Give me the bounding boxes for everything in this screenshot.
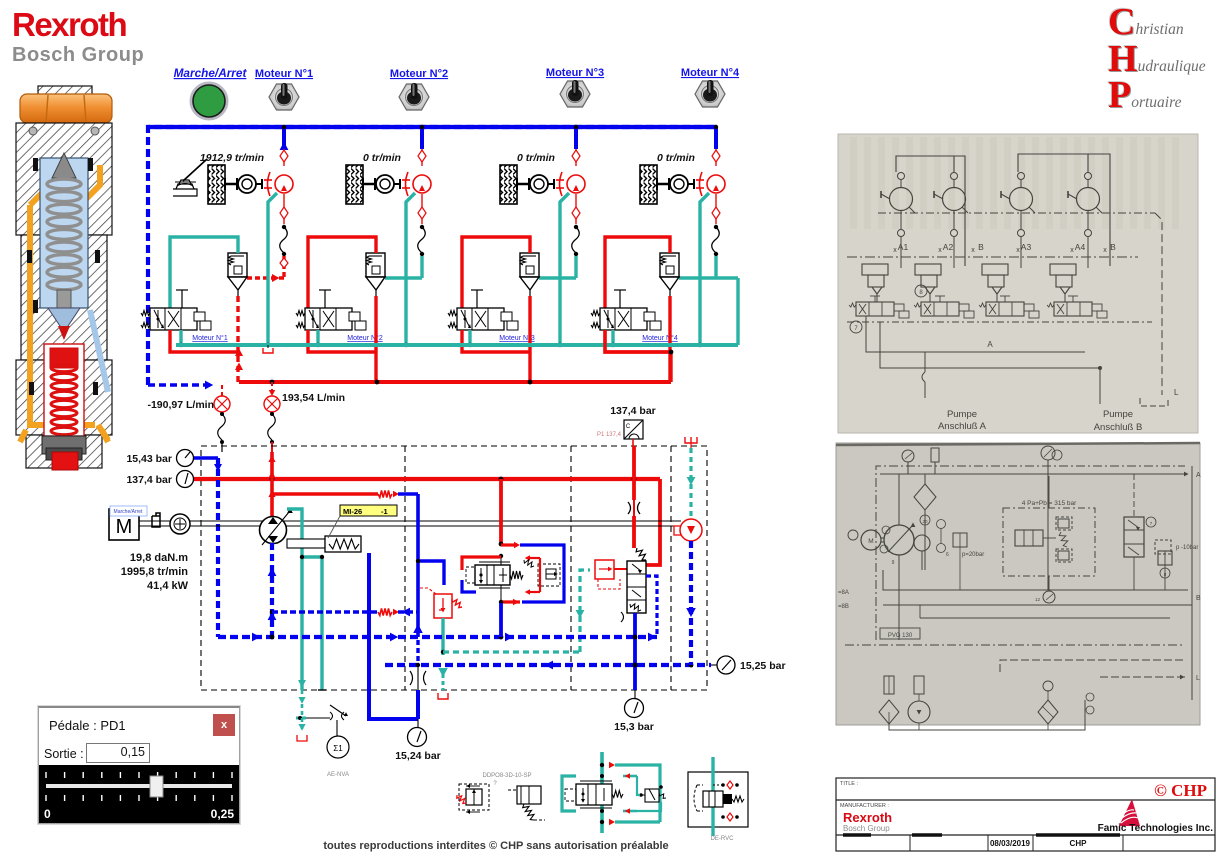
branch to relief valve (blue) — [418, 561, 444, 585]
flow regulator valve body — [475, 565, 510, 585]
svg-text:1995,8 tr/min: 1995,8 tr/min — [121, 566, 189, 578]
svg-text:L: L — [1174, 388, 1179, 397]
svg-text:Anschluß B: Anschluß B — [1094, 422, 1143, 433]
svg-text:-190,97 L/min: -190,97 L/min — [147, 399, 214, 411]
gauge 15,25 bar — [711, 664, 717, 666]
pilot supply bus (blue, top) — [148, 127, 716, 385]
svg-text:137,4 bar: 137,4 bar — [126, 474, 172, 486]
svg-text:0,25: 0,25 — [211, 807, 235, 821]
coupling — [152, 513, 160, 527]
tank wire valve DV1 — [179, 330, 182, 345]
hose below FM1 — [220, 412, 224, 416]
svg-text:Moteur N°1: Moteur N°1 — [255, 68, 313, 80]
logo Rexroth — [12, 8, 144, 65]
svg-text:x: x — [971, 247, 975, 254]
push button Marche/Arret (green) — [191, 83, 227, 119]
dialog Pedale PD1 — [38, 706, 240, 824]
svg-text:08/03/2019: 08/03/2019 — [990, 839, 1031, 848]
check valve diamond above motor M3 — [575, 149, 577, 166]
tank return bus (teal) — [176, 343, 738, 347]
svg-text:toutes reproductions interdite: toutes reproductions interdites © CHP sa… — [323, 840, 668, 852]
svg-text:Moteur N°4: Moteur N°4 — [642, 334, 678, 342]
svg-text:A: A — [987, 340, 993, 349]
pilot orifice line y612 — [272, 610, 378, 613]
svg-text:x: x — [938, 247, 942, 254]
main pump P1 (variable displacement) — [270, 452, 274, 517]
servo actuator MI-26 cylinder — [287, 539, 325, 548]
svg-text:CHP: CHP — [1070, 839, 1088, 848]
wire from hose to counterbalance valve M3 — [574, 256, 577, 278]
svg-text:B: B — [1110, 242, 1116, 252]
proportional relief/unloading valve (tall) — [627, 561, 646, 613]
svg-text:P1 137,4: P1 137,4 — [597, 432, 622, 438]
pilot drain line left (blue dashed vertical) — [216, 458, 220, 637]
toggle switch Moteur N°1 — [269, 84, 299, 110]
wheel (tyre) motor M3 — [500, 165, 517, 204]
svg-text:15,43 bar: 15,43 bar — [126, 453, 172, 465]
svg-text:Moteur N°2: Moteur N°2 — [390, 68, 448, 80]
axle coupling motor M2 — [363, 183, 375, 186]
hydraulic motor M1 (circle) — [264, 179, 272, 181]
component label MI-26 — [340, 505, 397, 516]
svg-text:0: 0 — [44, 807, 51, 821]
flexible hose below motor M1 — [282, 225, 286, 229]
svg-text:0 tr/min: 0 tr/min — [517, 152, 555, 164]
drain wire valve DV1 to pressure bus — [170, 330, 238, 352]
svg-text:A1: A1 — [898, 242, 909, 252]
gearbox coupling circle motor M1 — [238, 175, 256, 193]
torque meter — [170, 514, 190, 534]
svg-text:M: M — [116, 516, 133, 538]
return line motor M4 to tank bus — [700, 193, 709, 345]
regulator right red pilots — [539, 558, 541, 592]
orifice symbol — [628, 502, 640, 514]
prop valve pilot (blue dashed) — [646, 576, 657, 634]
flow regulator assembly (teal, bottom) — [600, 752, 604, 833]
svg-text:A3: A3 — [1021, 242, 1032, 252]
svg-text:C: C — [626, 424, 631, 430]
system relief valve RV1 (red) — [434, 594, 452, 618]
tank pilot teal dashed to compensator — [443, 650, 580, 653]
svg-text:A2: A2 — [943, 242, 954, 252]
return line motor M1 to tank bus — [268, 193, 277, 345]
directional valve 4/3 DV1 — [150, 308, 197, 330]
svg-text:15,25 bar: 15,25 bar — [740, 660, 786, 672]
check valve diamond below motor M2 — [421, 194, 423, 224]
axle coupling motor M4 — [657, 183, 669, 186]
gauge 15,24 bar — [417, 719, 419, 728]
check valve diamond above motor M1 — [283, 149, 285, 166]
axle coupling motor M3 — [517, 183, 529, 186]
svg-text:Marche/Arret: Marche/Arret — [174, 66, 248, 80]
return to tank (blue thick, bottom left) — [369, 553, 418, 719]
wire from hose to counterbalance valve M4 — [714, 256, 717, 278]
cartridge valve cutaway illustration — [16, 86, 112, 470]
flow regulator spool centreline — [500, 556, 502, 602]
counterbalance valve CB3 — [520, 253, 539, 277]
flexible hose below motor M3 — [574, 225, 578, 229]
pump case drain (teal) — [287, 509, 302, 690]
tank symbol at motor 1 return — [263, 348, 273, 353]
svg-text:p=20bar: p=20bar — [962, 552, 984, 558]
svg-text:x: x — [1070, 247, 1074, 254]
toggle switch Moteur N°3 — [560, 81, 590, 107]
wire blue supply stub motor 3 — [574, 127, 578, 149]
wire from hose to counterbalance valve M1 — [282, 256, 285, 278]
svg-text:=8A: =8A — [838, 590, 849, 596]
svg-text:PVG 130: PVG 130 — [888, 633, 913, 639]
flexible hose below motor M2 — [420, 225, 424, 229]
load-sense line (red with orifice) — [272, 492, 378, 495]
wire teal right branch motor M4 — [716, 276, 738, 279]
power unit enclosure (dashed) — [201, 446, 707, 690]
check valve diamond above motor M4 — [715, 149, 717, 166]
svg-text:Rexroth: Rexroth — [843, 810, 892, 825]
svg-text:-1: -1 — [381, 507, 388, 516]
svg-text:DDPO8-3D-10-SP: DDPO8-3D-10-SP — [482, 773, 531, 779]
counterbalance valve CB2 — [366, 253, 385, 277]
prop valve outlet (blue) — [633, 613, 637, 690]
line to proportional valve (red) — [632, 516, 636, 548]
regulator pilot boxes (dashed) — [466, 567, 475, 583]
tank symbol below relief valve — [438, 693, 448, 699]
photo of pump schematic (Pumpe Anschluss A/B) — [838, 134, 1198, 433]
return line motor M3 to tank bus — [560, 193, 569, 345]
pump suction pilot (blue dashed, below pump) — [270, 543, 274, 637]
valve DE-RVC (boxed) — [688, 772, 748, 827]
drain wire valve DV2 to pressure bus — [308, 330, 376, 352]
svg-text:0 tr/min: 0 tr/min — [657, 152, 695, 164]
hose below FM2 — [270, 412, 274, 416]
svg-text:MI-26: MI-26 — [343, 507, 362, 516]
case drain to fan motor (teal dashed) — [689, 448, 692, 519]
svg-text:Pumpe: Pumpe — [1103, 409, 1133, 420]
svg-text:41,4 kW: 41,4 kW — [147, 580, 189, 592]
wire loop valve-to-counterbalance M1 — [170, 237, 238, 308]
toggle switch Moteur N°4 — [695, 81, 725, 107]
svg-text:12: 12 — [1035, 597, 1041, 602]
svg-text:x: x — [893, 247, 897, 254]
svg-text:137,4 bar: 137,4 bar — [610, 405, 656, 417]
check valve diamond above motor M2 — [421, 149, 423, 166]
svg-text:Moteur N°3: Moteur N°3 — [546, 67, 604, 79]
logo CHP Christian Hydraulique Portuaire — [1108, 0, 1223, 1]
pressure line 137 bar (red horizontal) — [194, 477, 660, 481]
svg-text:M: M — [868, 538, 873, 545]
svg-text:Famic Technologies Inc.: Famic Technologies Inc. — [1098, 823, 1214, 834]
check valve diamond below motor M4 — [715, 194, 717, 224]
svg-text:© CHP: © CHP — [1154, 781, 1207, 800]
svg-text:=8B: =8B — [838, 604, 849, 610]
drain wire valve DV3 to pressure bus — [462, 330, 530, 352]
directional valve 4/3 DV2 — [305, 308, 352, 330]
sensor line down (red) — [632, 439, 634, 446]
wheel (tyre) motor M4 — [640, 165, 657, 204]
svg-text:0 tr/min: 0 tr/min — [363, 152, 401, 164]
svg-text:19,8 daN.m: 19,8 daN.m — [130, 552, 188, 564]
tachometer symbol motor M1 — [173, 189, 197, 196]
svg-text:1912,9 tr/min: 1912,9 tr/min — [200, 152, 264, 164]
title block — [836, 778, 1215, 851]
svg-text:15,3 bar: 15,3 bar — [614, 721, 654, 733]
wire from hose to counterbalance valve M2 — [420, 256, 423, 278]
hydraulic motor M3 (circle) — [556, 179, 564, 181]
cartridge valve symbol 1 — [459, 784, 489, 810]
return line motor M2 to tank bus — [406, 193, 415, 345]
svg-text:Marche/Arret: Marche/Arret — [114, 509, 144, 515]
svg-text:9: 9 — [892, 560, 895, 566]
wheel (tyre) motor M1 — [208, 165, 225, 204]
svg-text:x: x — [1016, 247, 1020, 254]
tank wire valve DV4 — [611, 330, 614, 345]
counterbalance valve CB4 — [660, 253, 679, 277]
wire loop valve-to-counterbalance M2 — [308, 237, 376, 308]
svg-text:15,24 bar: 15,24 bar — [395, 750, 441, 762]
gearbox coupling circle motor M4 — [670, 175, 688, 193]
svg-text:A4: A4 — [1075, 242, 1086, 252]
flow control block outlet (blue) — [499, 603, 503, 637]
proportional valve spring top — [636, 548, 646, 560]
check valve diamond below motor M3 — [575, 194, 577, 224]
pressure bus (red) — [239, 380, 671, 384]
svg-text:Anschluß A: Anschluß A — [938, 421, 987, 432]
toggle switch Moteur N°2 — [399, 84, 429, 110]
tank wire valve DV2 — [316, 330, 319, 345]
check valve diamond below motor M1 — [283, 194, 285, 224]
photo of PVG 130 pump circuit — [836, 443, 1200, 725]
svg-text:L: L — [1196, 675, 1200, 682]
hydraulic motor M4 (circle) — [696, 179, 704, 181]
svg-text:DE-RVC: DE-RVC — [711, 836, 735, 842]
load sense continuation (blue) — [398, 492, 418, 495]
svg-text:B: B — [978, 242, 984, 252]
svg-text:Moteur N°1: Moteur N°1 — [192, 334, 228, 342]
breather AE-NVA — [296, 717, 306, 720]
flow control block supply (red) — [499, 479, 503, 545]
tank wire valve DV3 — [468, 330, 471, 345]
svg-text:193,54 L/min: 193,54 L/min — [282, 392, 345, 404]
fan motor (red circle right) — [674, 526, 682, 535]
wire loop valve-to-counterbalance M3 — [462, 237, 530, 308]
svg-text:TITLE :: TITLE : — [840, 781, 859, 787]
blue pilot bus y665 — [385, 663, 711, 667]
gearbox coupling circle motor M3 — [530, 175, 548, 193]
svg-text:A: A — [1196, 472, 1201, 479]
svg-text:?: ? — [493, 781, 497, 787]
drive shaft — [139, 520, 681, 522]
flow control upper branch — [501, 543, 517, 546]
red feed C into regulator — [462, 557, 501, 570]
gearbox coupling circle motor M2 — [376, 175, 394, 193]
svg-text:x: x — [1103, 247, 1107, 254]
pilot valve (bottom right of teal assembly) — [645, 789, 659, 802]
tank symbol top right (red) — [685, 437, 697, 443]
cartridge valve symbol 2 — [508, 789, 520, 791]
blue out C from regulator — [462, 580, 476, 592]
drain wire valve DV4 to pressure bus — [605, 330, 670, 352]
svg-text:B: B — [1196, 595, 1201, 602]
electric motor M1 — [109, 509, 139, 540]
svg-text:Σ1: Σ1 — [333, 744, 343, 753]
pilot line to flow meter FM1 — [148, 383, 214, 387]
directional valve 4/3 DV4 — [600, 308, 647, 330]
svg-text:Moteur N°4: Moteur N°4 — [681, 67, 740, 79]
flow meter FM1 (-190,97 L/min) — [214, 396, 230, 412]
gauge 15,3 bar — [634, 690, 636, 699]
flow meter FM2 (193,54 L/min) — [271, 382, 273, 396]
wheel (tyre) motor M2 — [346, 165, 363, 204]
svg-text:Bosch Group: Bosch Group — [843, 824, 890, 833]
svg-text:p -10bar: p -10bar — [1176, 545, 1198, 551]
hydraulic motor M2 (circle) — [402, 179, 410, 181]
wire blue supply stub motor 4 — [714, 127, 718, 149]
wire gauge to pilot line (blue) — [194, 456, 218, 459]
check valve to tank return (black) — [416, 640, 419, 663]
svg-text:Pumpe: Pumpe — [947, 409, 977, 420]
regulator spring — [510, 571, 523, 579]
blue pilot bus y637 — [218, 635, 657, 639]
fan motor outlet (blue dashed) — [689, 541, 693, 665]
svg-text:MANUFACTURER :: MANUFACTURER : — [840, 803, 889, 809]
wire blue supply stub motor 1 — [282, 127, 286, 149]
flow regulator valve body (bottom) — [576, 784, 612, 805]
svg-text:AE-NVA: AE-NVA — [327, 772, 349, 778]
counterbalance valve CB1 — [228, 253, 247, 277]
pressure compensator (red) — [595, 560, 614, 579]
servo cylinder + teal drain 2 — [320, 557, 323, 690]
directional valve 4/3 DV3 — [457, 308, 504, 330]
wire blue supply stub motor 2 — [420, 127, 424, 149]
wire loop valve-to-counterbalance M4 — [605, 237, 670, 308]
flexible hose below motor M4 — [714, 225, 718, 229]
relief valve tank line (teal) — [441, 618, 444, 655]
svg-text:6: 6 — [946, 552, 949, 558]
axle coupling motor M1 — [225, 183, 237, 186]
